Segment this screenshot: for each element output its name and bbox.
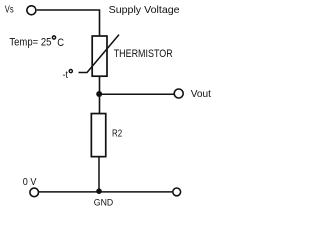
terminal Vs	[27, 6, 36, 15]
svg-text:C: C	[57, 37, 64, 49]
junction node Vout	[96, 91, 102, 97]
thermistor TH1 body	[92, 36, 107, 76]
svg-text:-t: -t	[63, 70, 69, 81]
terminal 0V	[30, 188, 39, 197]
svg-text:GND: GND	[94, 198, 114, 209]
wire ground rail	[39, 191, 173, 193]
svg-text:Temp= 25: Temp= 25	[9, 37, 51, 49]
resistor R2 body	[91, 114, 105, 157]
junction node GND	[96, 188, 102, 194]
svg-text:0 V: 0 V	[23, 177, 37, 188]
svg-text:Vs: Vs	[5, 5, 14, 16]
svg-text:R2: R2	[112, 129, 123, 140]
terminal ground right	[173, 188, 181, 196]
wire Vs to thermistor top	[37, 10, 100, 36]
wire thermistor to R2	[99, 76, 101, 113]
thermistor TH1 diagonal	[79, 35, 120, 73]
terminal Vout	[174, 89, 183, 98]
degree symbol of -t	[69, 70, 72, 73]
degree symbol of 25C	[52, 36, 55, 39]
wire junction to Vout terminal	[99, 93, 174, 95]
wire R2 to ground rail	[98, 158, 100, 192]
svg-text:Vout: Vout	[191, 88, 211, 100]
svg-text:THERMISTOR: THERMISTOR	[114, 48, 173, 60]
svg-text:Supply Voltage: Supply Voltage	[109, 4, 180, 16]
